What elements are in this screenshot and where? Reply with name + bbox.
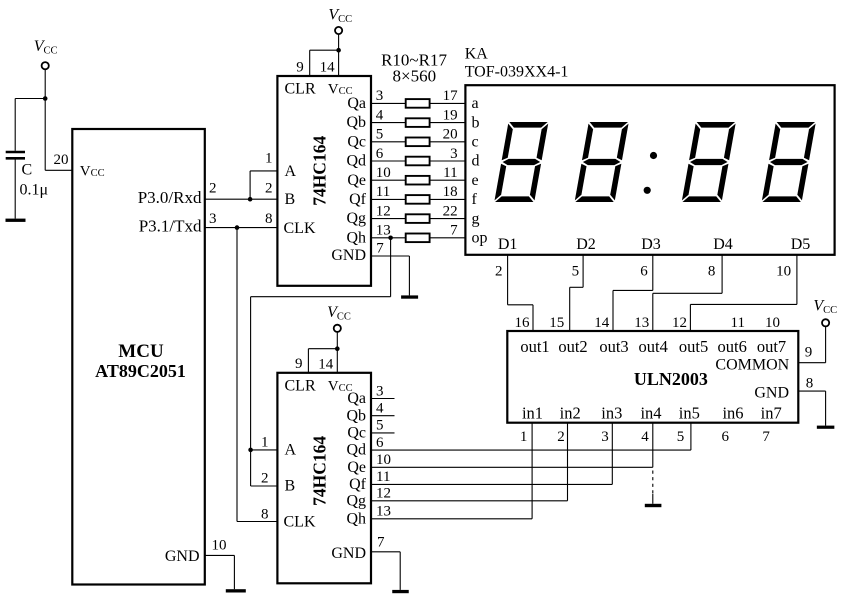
svg-text:2: 2 <box>495 264 503 280</box>
wire into ULN2003 out3 <box>612 290 614 331</box>
wire U2 Qg to resistor R16 <box>371 218 406 220</box>
svg-text:8: 8 <box>708 264 716 280</box>
svg-text:out6: out6 <box>718 337 747 356</box>
svg-text:6: 6 <box>376 435 384 451</box>
svg-text:a: a <box>472 95 479 112</box>
resistor R16 <box>406 214 430 223</box>
wire VCC down to MCU pin 20 <box>44 69 46 170</box>
wire U4 in4 down to U3 Qe wire <box>652 423 654 468</box>
resistor R10 <box>406 99 430 108</box>
junction on P3.1 wire <box>235 225 240 230</box>
svg-text:in3: in3 <box>601 404 622 423</box>
svg-text:1: 1 <box>261 434 269 450</box>
svg-text:5: 5 <box>376 418 384 434</box>
wire pin 9 to pin 14 tie (U2) <box>310 49 339 51</box>
wire resistor R16 to display <box>430 218 466 220</box>
wire U3 GND down <box>399 552 401 590</box>
svg-text:13: 13 <box>376 504 391 520</box>
svg-text:10: 10 <box>212 538 227 554</box>
svg-text:COMMON: COMMON <box>715 356 789 373</box>
svg-text:CLK: CLK <box>284 514 316 531</box>
svg-text:Qb: Qb <box>346 407 366 424</box>
svg-text:e: e <box>472 172 479 189</box>
svg-text:GND: GND <box>754 385 789 402</box>
wire display D2 down <box>582 255 584 287</box>
display digit 4 (8) <box>762 122 816 202</box>
svg-text:12: 12 <box>376 486 391 502</box>
resistor R12 <box>406 138 430 147</box>
wire U2 GND pin 7 <box>371 255 409 257</box>
wire into U2 input A <box>250 170 277 172</box>
svg-text:b: b <box>472 114 480 131</box>
wire U3 GND pin 7 <box>371 551 400 553</box>
stub U3 Qb <box>371 415 395 417</box>
wire P3.1/Txd from MCU pin 3 to U2 CLK <box>205 227 278 229</box>
svg-text:22: 22 <box>443 203 458 219</box>
capacitor C 0.1u plates <box>6 151 25 154</box>
wire into ULN2003 out1 <box>532 305 534 331</box>
wire into U2 pin 9 CLR <box>309 50 311 76</box>
wire VCC to U3 pin 14 <box>336 332 338 373</box>
svg-text:Qf: Qf <box>349 476 367 493</box>
svg-text:C: C <box>22 162 33 179</box>
wire into ULN2003 out5 <box>689 304 691 331</box>
wire VCC to U2 pin 14 <box>338 34 340 76</box>
wire into U3 pin 9 CLR <box>307 349 309 373</box>
wire into U3 CLK <box>237 521 277 523</box>
display colon upper dot <box>650 152 657 159</box>
wire U2 Qb to resistor R11 <box>371 122 406 124</box>
svg-text:20: 20 <box>443 127 458 143</box>
wire VCC into MCU pin 20 <box>45 169 72 171</box>
svg-text:8: 8 <box>265 211 273 227</box>
svg-text:out4: out4 <box>639 337 668 356</box>
wire display D2 jog <box>570 286 583 288</box>
wire in4 ground lead <box>652 494 654 504</box>
svg-text:10: 10 <box>376 452 391 468</box>
svg-text:Qg: Qg <box>346 492 366 509</box>
wire capacitor C to ground <box>14 158 16 218</box>
svg-text:Qd: Qd <box>346 442 366 459</box>
wire U2 Qe to resistor R14 <box>371 179 406 181</box>
display digit 3 (8) <box>682 122 736 202</box>
svg-text:19: 19 <box>443 107 458 123</box>
wire display D1 jog <box>508 304 533 306</box>
svg-text:5: 5 <box>376 127 384 143</box>
svg-text:Qc: Qc <box>347 133 366 150</box>
svg-text:8: 8 <box>261 506 269 522</box>
svg-text:14: 14 <box>318 356 334 372</box>
junction VCC pins 9/14 (U3) <box>335 346 340 351</box>
svg-text:in2: in2 <box>560 404 581 423</box>
wire U4 in5 down to U3 Qd wire <box>690 423 692 450</box>
svg-text:10: 10 <box>776 264 791 280</box>
wire resistor R14 to display <box>430 179 466 181</box>
svg-text:Qh: Qh <box>346 510 366 527</box>
wire down to capacitor C top plate <box>14 99 16 151</box>
wire display D5 jog <box>690 303 797 305</box>
wire U2 Qh cascade down <box>390 238 392 297</box>
svg-text:in4: in4 <box>640 404 661 423</box>
svg-text:Qf: Qf <box>349 191 367 208</box>
svg-text:out1: out1 <box>520 337 549 356</box>
svg-text:in7: in7 <box>761 404 782 423</box>
svg-text:MCU: MCU <box>118 341 164 362</box>
svg-text:out7: out7 <box>757 337 786 356</box>
wire U3 Qd to U4 in5 <box>371 449 691 451</box>
svg-text:1: 1 <box>520 429 528 445</box>
wire MCU GND down to ground <box>233 555 235 589</box>
resistor R13 <box>406 157 430 166</box>
svg-text:2: 2 <box>557 429 565 445</box>
svg-text:4: 4 <box>376 401 384 417</box>
svg-text:4: 4 <box>376 107 384 123</box>
svg-text:D4: D4 <box>713 236 733 253</box>
wire MCU GND pin 10 <box>205 554 235 556</box>
wire U4 GND down <box>825 391 827 426</box>
wire U3 Qh to U4 in1 <box>371 518 532 520</box>
wire P3.1 down to U3 CLK <box>236 228 238 522</box>
wire U2 Qf to resistor R15 <box>371 198 406 200</box>
svg-text:6: 6 <box>640 264 648 280</box>
wire resistor R13 to display <box>430 160 466 162</box>
svg-text:CLR: CLR <box>285 81 316 98</box>
svg-text:Qa: Qa <box>347 95 366 112</box>
power terminal VCC circle (U3) <box>334 325 341 332</box>
svg-text:12: 12 <box>376 203 391 219</box>
svg-text:3: 3 <box>601 429 609 445</box>
wire U4 in2 down to U3 Qg wire <box>567 423 569 501</box>
junction U3 A/B tie <box>248 448 253 453</box>
junction VCC pins 9/14 (U2) <box>336 48 341 53</box>
svg-text:g: g <box>472 210 480 227</box>
svg-text:6: 6 <box>376 146 384 162</box>
ground (capacitor C) <box>6 219 26 222</box>
svg-text:15: 15 <box>549 315 564 331</box>
wire resistor R17 to display <box>430 237 466 239</box>
svg-text:9: 9 <box>295 356 303 372</box>
power terminal VCC circle (U4) <box>822 319 829 326</box>
svg-text:14: 14 <box>594 315 610 331</box>
svg-text:P3.1/Txd: P3.1/Txd <box>139 216 202 235</box>
shift register U2 74HC164 body <box>277 76 371 286</box>
stub U3 Qa <box>371 398 395 400</box>
svg-text:ULN2003: ULN2003 <box>634 369 708 389</box>
wire U3 Qg to U4 in2 <box>371 500 568 502</box>
svg-text:Qb: Qb <box>346 114 366 131</box>
wire cascade horizontal to U3 <box>251 296 391 298</box>
wire up to VCC (U4) <box>825 327 827 363</box>
wire display D3 jog <box>613 289 653 291</box>
display digit 2 (8) <box>575 122 629 202</box>
driver U4 ULN2003 body <box>507 331 798 423</box>
svg-text:Qh: Qh <box>346 229 366 246</box>
svg-text:10: 10 <box>765 315 780 331</box>
svg-text:6: 6 <box>722 429 730 445</box>
wire resistor R12 to display <box>430 141 466 143</box>
svg-text:TOF-039XX4-1: TOF-039XX4-1 <box>465 64 569 81</box>
svg-text:7: 7 <box>377 535 385 551</box>
junction on P3.0 wire <box>248 197 253 202</box>
wire U2 Qd to resistor R13 <box>371 160 406 162</box>
svg-text:12: 12 <box>672 315 687 331</box>
svg-text:11: 11 <box>376 469 390 485</box>
svg-text:GND: GND <box>331 247 366 264</box>
wire into U3 input A <box>251 449 278 451</box>
svg-text:f: f <box>472 191 478 208</box>
svg-text:3: 3 <box>450 146 458 162</box>
svg-text:c: c <box>472 134 479 151</box>
svg-text:GND: GND <box>165 548 200 565</box>
resistor R15 <box>406 195 430 204</box>
svg-text:2: 2 <box>209 181 217 197</box>
svg-text:Qg: Qg <box>346 210 366 227</box>
svg-text:4: 4 <box>641 429 649 445</box>
resistor R17 <box>406 234 430 243</box>
svg-text:op: op <box>472 230 488 247</box>
ground (U4 GND) <box>817 426 835 429</box>
wire cascade down to U3 A/B <box>250 297 252 486</box>
svg-text:8×560: 8×560 <box>393 67 437 86</box>
svg-text:14: 14 <box>320 60 336 76</box>
display digit 1 (8) <box>494 122 548 202</box>
svg-text:1: 1 <box>265 150 273 166</box>
svg-text:9: 9 <box>296 59 304 75</box>
svg-text:74HC164: 74HC164 <box>310 436 330 506</box>
svg-text:13: 13 <box>634 315 649 331</box>
svg-text:17: 17 <box>443 88 459 104</box>
svg-text:2: 2 <box>261 470 269 486</box>
resistor R14 <box>406 176 430 185</box>
wire into ULN2003 out4 <box>652 293 654 331</box>
svg-text:2: 2 <box>265 181 273 197</box>
svg-text:Qd: Qd <box>346 153 366 170</box>
svg-text:11: 11 <box>376 184 390 200</box>
wire into ULN2003 out2 <box>569 287 571 331</box>
wire U3 Qf to U4 in3 <box>371 483 612 485</box>
svg-text:13: 13 <box>376 223 391 239</box>
svg-text:7: 7 <box>450 223 458 239</box>
svg-text:0.1μ: 0.1μ <box>20 182 49 199</box>
ground (U2 GND) <box>401 295 418 298</box>
svg-text:5: 5 <box>572 264 580 280</box>
svg-text:16: 16 <box>515 315 531 331</box>
svg-text:11: 11 <box>443 165 457 181</box>
wire resistor R11 to display <box>430 122 466 124</box>
svg-text:7: 7 <box>376 240 384 256</box>
wire U2 Qa to resistor R10 <box>371 102 406 104</box>
wire U4 COMMON pin 9 <box>798 362 825 364</box>
resistor R11 <box>406 118 430 127</box>
wire resistor R15 to display <box>430 198 466 200</box>
svg-text:out5: out5 <box>679 337 708 356</box>
svg-text:A: A <box>285 442 297 459</box>
svg-text:D2: D2 <box>576 236 596 253</box>
power terminal VCC circle (U2) <box>335 27 342 34</box>
svg-text:5: 5 <box>677 429 685 445</box>
junction U2 Qh to cascade <box>388 236 393 241</box>
ground (MCU GND) <box>226 589 246 592</box>
wire pin 9 to pin 14 tie (U3) <box>308 348 337 350</box>
wire into U3 input B <box>251 485 278 487</box>
svg-text:in6: in6 <box>722 404 743 423</box>
svg-text:Qe: Qe <box>347 172 366 189</box>
svg-text:3: 3 <box>209 211 217 227</box>
svg-text:CLK: CLK <box>284 220 316 237</box>
svg-text:in1: in1 <box>522 404 543 423</box>
svg-text:A: A <box>285 163 297 180</box>
svg-text:AT89C2051: AT89C2051 <box>95 361 186 381</box>
svg-text:KA: KA <box>465 46 489 63</box>
wire U4 in3 down to U3 Qf wire <box>611 423 613 485</box>
stub U3 Qc <box>371 432 395 434</box>
svg-text:out2: out2 <box>558 337 587 356</box>
svg-text:B: B <box>285 478 296 495</box>
svg-text:3: 3 <box>376 88 384 104</box>
dashed wire in4 to ground <box>652 471 654 495</box>
svg-text:CLR: CLR <box>285 377 316 394</box>
svg-text:10: 10 <box>376 165 391 181</box>
svg-text:3: 3 <box>376 383 384 399</box>
wire display D1 down <box>507 255 509 305</box>
svg-text:P3.0/Rxd: P3.0/Rxd <box>138 188 202 207</box>
svg-text:74HC164: 74HC164 <box>310 136 330 206</box>
svg-text:20: 20 <box>54 152 69 168</box>
svg-text:11: 11 <box>731 315 745 331</box>
wire junction to capacitor C <box>15 98 45 100</box>
wire P3.0/Rxd from MCU pin 2 to U2 input B <box>205 198 278 200</box>
wire riser junction to U2 input A <box>249 171 251 199</box>
svg-text:in5: in5 <box>679 404 700 423</box>
wire resistor R10 to display <box>430 102 466 104</box>
svg-text:GND: GND <box>331 545 366 562</box>
svg-text:B: B <box>285 191 296 208</box>
svg-text:D1: D1 <box>498 236 518 253</box>
wire U3 Qe to U4 in4 <box>371 466 653 468</box>
svg-text:D3: D3 <box>641 236 661 253</box>
power terminal VCC circle (top-left) <box>42 62 49 69</box>
svg-text:out3: out3 <box>599 337 628 356</box>
shift register U3 74HC164 body <box>277 373 371 584</box>
wire display D5 down <box>796 255 798 305</box>
display DS1 TOF-039XX4-1 body <box>465 85 834 255</box>
wire U2 Qc to resistor R12 <box>371 141 406 143</box>
wire U2 Qh to resistor R17 <box>371 237 406 239</box>
svg-text:7: 7 <box>762 429 770 445</box>
svg-text:Qc: Qc <box>347 425 366 442</box>
wire U4 GND pin 8 <box>798 390 825 392</box>
svg-text:Qa: Qa <box>347 390 366 407</box>
wire U4 in1 down to U3 Qh wire <box>531 423 533 519</box>
junction at VCC / capacitor branch <box>43 96 48 101</box>
ground (U4 in4, dashed) <box>645 504 662 507</box>
wire display D4 down <box>721 255 723 293</box>
svg-text:d: d <box>472 153 480 170</box>
svg-text:9: 9 <box>805 345 813 361</box>
wire U2 GND down <box>408 256 410 295</box>
ground (U3 GND) <box>392 590 409 593</box>
svg-text:Qe: Qe <box>347 459 366 476</box>
svg-text:8: 8 <box>806 375 814 391</box>
svg-text:D5: D5 <box>791 236 811 253</box>
MCU U1 AT89C2051 body <box>72 129 205 585</box>
wire display D3 down <box>652 255 654 291</box>
display colon lower dot <box>644 187 651 194</box>
svg-text:18: 18 <box>443 184 458 200</box>
wire display D4 jog <box>653 292 722 294</box>
